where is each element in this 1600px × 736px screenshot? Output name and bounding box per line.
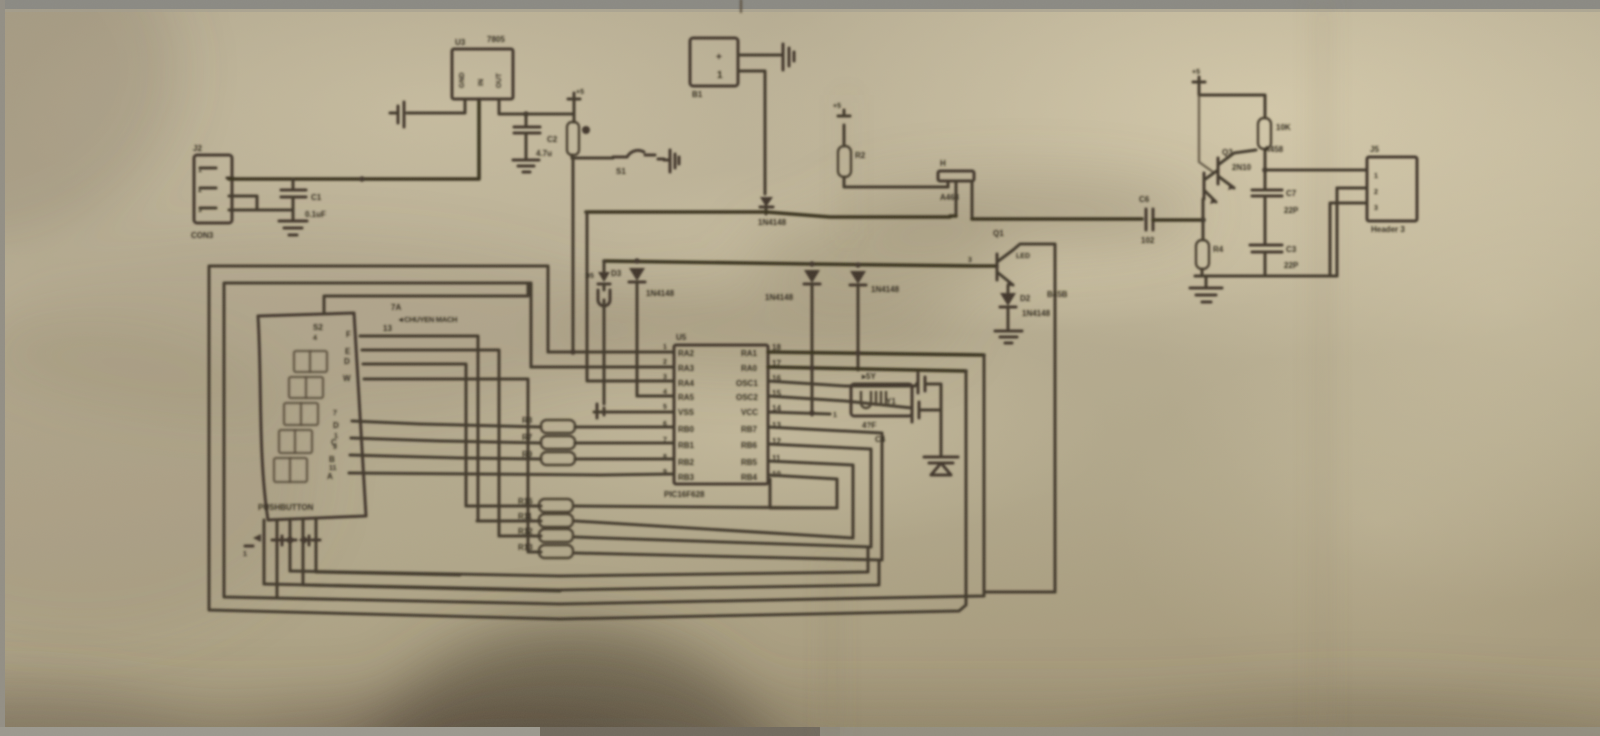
resistor R7 xyxy=(522,433,674,449)
wire buzzer pin1 to ground xyxy=(738,54,781,57)
wire C6 bus to base node xyxy=(1202,218,1203,222)
transistor Q4 xyxy=(1204,145,1284,204)
wire Q2 emitter down to PIC pin1 xyxy=(572,158,575,352)
resistor R9 xyxy=(522,450,674,465)
regulator U3 7805 xyxy=(452,35,513,99)
wire keypad stub C bottom run xyxy=(303,585,560,591)
creases xyxy=(830,0,1325,736)
transistor Q1 xyxy=(968,229,1030,287)
resistor R4 xyxy=(1196,220,1224,276)
bus wire 1 right of H to C6 xyxy=(950,216,1142,219)
bus wire 1 left corner down to PIC pin3 xyxy=(586,213,589,380)
keypad bottom connector symbols xyxy=(243,534,320,558)
keypad bottom stubs xyxy=(264,518,316,598)
wire +5 down to Q3 xyxy=(1199,95,1213,172)
node A junction on feed xyxy=(359,176,365,182)
node junction out xyxy=(523,111,529,117)
resistor R13 xyxy=(518,543,573,558)
wire loop1 pin1-pin17 xyxy=(209,266,966,619)
wire buzzer top stub xyxy=(740,0,742,12)
wire J2 pin1 to bus xyxy=(227,177,233,180)
transistor Q2 xyxy=(567,114,590,158)
wire pin16 to crystal xyxy=(768,381,918,386)
bus wire 1 top xyxy=(586,212,950,217)
wire pin3 row xyxy=(587,380,674,383)
capacitor C3 xyxy=(1250,245,1299,276)
bus wire 2 xyxy=(604,261,997,266)
wire regulator out to +5 node xyxy=(499,99,574,114)
wire pin14 row xyxy=(768,412,830,414)
wire junction to header pin1 xyxy=(1265,169,1367,172)
ground symbol right block xyxy=(1190,276,1222,302)
wire keypad A col row xyxy=(349,473,674,475)
wire Q1 collector loop xyxy=(1013,244,1055,592)
connector J2 xyxy=(191,144,232,240)
wire pin11 wrap xyxy=(477,461,853,538)
wire keypad stub A bottom run xyxy=(264,560,879,590)
capacitor C8 input xyxy=(390,102,404,127)
+5 symbol right block xyxy=(1192,69,1205,95)
resistor R2 xyxy=(833,103,948,187)
capacitor C6 xyxy=(1139,195,1203,245)
wire header pin3 xyxy=(1330,203,1367,276)
diode D1 xyxy=(850,262,900,370)
table edges xyxy=(0,0,1600,9)
wire base node up to Q4 xyxy=(1202,199,1205,220)
ground rail right block xyxy=(1195,188,1337,276)
ground below C2 xyxy=(513,160,539,172)
capacitor C5 on pin5 xyxy=(594,404,674,418)
wire keypad W row xyxy=(364,379,528,551)
resistor R3 xyxy=(1258,118,1291,170)
resistor R10 xyxy=(518,497,573,512)
ground below D2 xyxy=(995,331,1022,343)
resistor R11 xyxy=(518,512,573,527)
wire pin15 to crystal xyxy=(768,396,912,408)
diode D3 xyxy=(611,258,675,396)
wire long feed line to regulator input xyxy=(229,99,479,179)
wire keypad B col row xyxy=(350,455,541,459)
wire Q1 collector bottom run xyxy=(984,591,1055,594)
node base junction xyxy=(1200,217,1206,223)
wire keypad stub B bottom run xyxy=(290,547,868,576)
wire caps to ground xyxy=(940,390,943,455)
resistor R8 xyxy=(522,416,674,433)
node Q3 junction xyxy=(1262,167,1268,173)
capacitor C4 top xyxy=(918,373,941,393)
transistor Q3 xyxy=(1218,148,1256,190)
wire header pin2 xyxy=(1337,188,1367,276)
wire pin13 wrap xyxy=(528,427,882,560)
wire J2 pin2/3 joins xyxy=(229,196,293,210)
+5 symbol top xyxy=(568,89,584,114)
wire keypad C col row xyxy=(351,438,541,443)
keypad S2 xyxy=(258,313,366,520)
wire keypad E row xyxy=(362,350,499,536)
buzzer LS1 xyxy=(690,38,738,99)
ground crystal xyxy=(924,457,958,475)
capacitor C1 xyxy=(279,179,326,235)
wire pin17 row xyxy=(768,367,966,371)
switch S1 xyxy=(573,150,664,176)
wire pin18 row xyxy=(768,352,984,355)
diode D2 xyxy=(1000,285,1068,330)
wire keypad stub D bottom run xyxy=(316,572,460,575)
wire pin1 row xyxy=(548,351,674,354)
wire pin4 row xyxy=(637,395,674,398)
wire keypad F row pin13 xyxy=(360,336,478,521)
capacitor C7 xyxy=(1252,170,1299,245)
wire buzzer pin2 down to bus xyxy=(738,71,765,194)
jumper H xyxy=(938,159,974,219)
wire regulator left pin down-left xyxy=(407,99,465,113)
ground right of S1 xyxy=(664,150,679,172)
diode D6 xyxy=(804,261,820,415)
IC U5 PIC16F628 xyxy=(663,333,781,499)
wire keypad D col row xyxy=(352,421,541,427)
bus2 left corner component D7 xyxy=(585,261,610,404)
crystal Y1 xyxy=(851,372,912,444)
diode D4 xyxy=(758,197,787,227)
wire pin10 wrap xyxy=(466,475,837,508)
wire keypad D row xyxy=(363,364,466,506)
resistor R12 xyxy=(518,527,573,542)
wire pin12 wrap xyxy=(499,444,871,547)
ground right of buzzer xyxy=(783,44,794,70)
wire loop2 pin2-pin18 xyxy=(224,283,984,604)
keypad top stub wire xyxy=(324,283,528,313)
capacitor C5 bottom xyxy=(912,398,941,422)
wire +5 rail right xyxy=(1199,95,1265,118)
capacitor C2 xyxy=(514,114,558,158)
wire inner wrap extra xyxy=(770,479,837,508)
wire pin2 row xyxy=(531,366,674,369)
header J5 xyxy=(1367,145,1417,234)
